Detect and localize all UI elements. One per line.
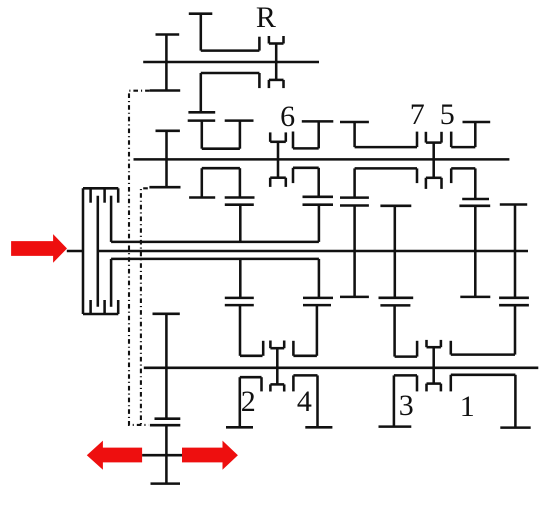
svg-text:R: R (256, 1, 276, 34)
svg-text:3: 3 (399, 389, 414, 422)
svg-text:6: 6 (280, 100, 295, 133)
svg-text:2: 2 (241, 385, 256, 418)
svg-text:7: 7 (410, 98, 425, 131)
svg-text:4: 4 (297, 385, 312, 418)
svg-text:1: 1 (460, 390, 475, 423)
svg-text:5: 5 (440, 98, 455, 131)
